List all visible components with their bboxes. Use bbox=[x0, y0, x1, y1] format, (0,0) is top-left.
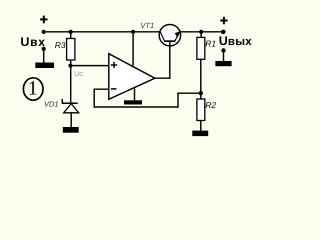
resistor R1 bbox=[197, 37, 205, 59]
ground bar under op-amp bbox=[124, 100, 142, 104]
op-amp U1 body bbox=[109, 54, 155, 100]
node: feedback junction bbox=[199, 91, 203, 95]
svg-text:1: 1 bbox=[28, 78, 38, 100]
wire: R1 top stem bbox=[200, 32, 202, 38]
resistor R2 bbox=[197, 99, 205, 121]
transistor VT1 emitter arrow bbox=[175, 31, 180, 37]
op-amp minus input mark bbox=[111, 88, 117, 90]
node: R3 top junction bbox=[69, 30, 73, 34]
ground bar under VD1 bbox=[63, 127, 79, 133]
ground bar under R2 bbox=[192, 131, 208, 137]
transistor VT1 base bar bbox=[164, 40, 175, 42]
zener diode VD1 anode triangle bbox=[64, 104, 79, 113]
wire: top rail right (transistor emitter to output) bbox=[180, 31, 223, 33]
output terminal bar bbox=[215, 61, 231, 66]
wire: R3 bottom to zener bbox=[70, 60, 72, 103]
svg-text:UC: UC bbox=[74, 71, 84, 78]
input terminal bar bbox=[35, 63, 54, 69]
node: R1 top junction bbox=[199, 30, 203, 34]
plus sign input polarity bbox=[40, 16, 47, 24]
wire: zener to ground bbox=[70, 113, 72, 127]
resistor R3 bbox=[67, 39, 75, 61]
svg-text:Uвых: Uвых bbox=[219, 34, 253, 48]
svg-text:Uвх: Uвх bbox=[20, 35, 45, 49]
node: output rail end bbox=[221, 30, 226, 35]
wire: R2 bottom to ground bbox=[200, 121, 202, 131]
wire: op-amp ground stem bbox=[134, 89, 136, 101]
svg-text:R1: R1 bbox=[205, 39, 216, 49]
svg-text:VT1: VT1 bbox=[140, 21, 154, 30]
transistor VT1 collector lead bbox=[160, 32, 164, 41]
plus sign output polarity bbox=[220, 17, 227, 24]
terminal dot output bbox=[221, 48, 225, 52]
svg-text:R2: R2 bbox=[205, 100, 216, 110]
node: reference node junction bbox=[68, 64, 72, 68]
svg-text:VD1: VD1 bbox=[44, 100, 59, 109]
svg-text:R3: R3 bbox=[55, 40, 66, 50]
terminal dot input bbox=[42, 47, 46, 51]
node: input rail junction bbox=[42, 30, 46, 34]
wire: top rail left (input to transistor collector) bbox=[44, 31, 160, 33]
transistor VT1 body bbox=[159, 25, 180, 46]
wire: output terminal stem bbox=[223, 51, 225, 61]
zener diode VD1 cathode bar bbox=[62, 99, 78, 103]
node: op-amp supply junction bbox=[131, 30, 135, 34]
transistor VT1 emitter lead bbox=[175, 32, 180, 41]
op-amp plus input mark bbox=[111, 62, 117, 68]
callout circled 1 bbox=[23, 78, 43, 100]
wire: R1 bottom to junction bbox=[200, 59, 202, 99]
wire: op-amp minus input lead bbox=[94, 89, 201, 107]
wire: op-amp supply stem bbox=[132, 32, 134, 66]
wire: op-amp output to transistor base bbox=[155, 46, 170, 79]
wire: R3 top stem bbox=[70, 32, 72, 39]
wire: input terminal stem bbox=[43, 50, 45, 63]
wire: op-amp plus input bbox=[71, 65, 109, 67]
transistor VT1 base stem bbox=[169, 41, 171, 46]
